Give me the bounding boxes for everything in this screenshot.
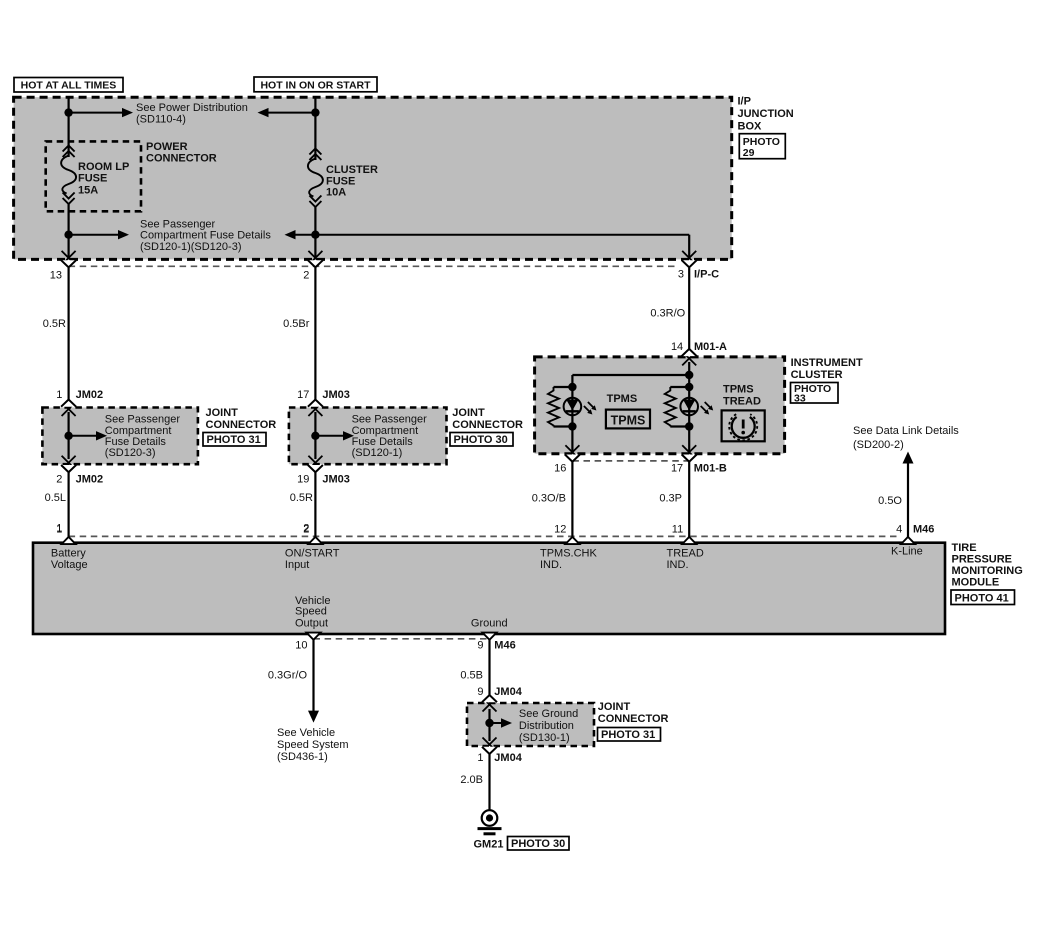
svg-text:CONNECTOR: CONNECTOR — [452, 419, 523, 431]
svg-text:INSTRUMENT: INSTRUMENT — [791, 357, 863, 369]
svg-text:K-Line: K-Line — [891, 546, 923, 558]
svg-text:GM21: GM21 — [474, 838, 504, 850]
svg-text:9: 9 — [477, 639, 483, 651]
svg-text:0.5B: 0.5B — [460, 669, 483, 681]
svg-text:TREAD: TREAD — [723, 395, 761, 407]
svg-text:1: 1 — [477, 752, 483, 764]
svg-text:FUSE: FUSE — [78, 173, 107, 185]
svg-text:See Passenger: See Passenger — [140, 218, 216, 230]
svg-text:HOT IN ON OR START: HOT IN ON OR START — [260, 79, 371, 91]
svg-text:Ground: Ground — [471, 617, 508, 629]
svg-text:CLUSTER: CLUSTER — [326, 164, 378, 176]
svg-text:19: 19 — [297, 473, 309, 485]
svg-text:I/P: I/P — [738, 96, 751, 108]
svg-text:0.5L: 0.5L — [45, 492, 66, 504]
svg-text:0.3P: 0.3P — [659, 493, 682, 505]
svg-text:PHOTO 41: PHOTO 41 — [955, 592, 1009, 604]
svg-text:HOT AT ALL TIMES: HOT AT ALL TIMES — [21, 80, 117, 92]
svg-text:TPMS.CHK: TPMS.CHK — [540, 548, 598, 560]
svg-text:TREAD: TREAD — [667, 548, 704, 560]
svg-text:1: 1 — [56, 523, 62, 535]
svg-text:CLUSTER: CLUSTER — [791, 369, 843, 381]
svg-text:29: 29 — [743, 147, 755, 159]
svg-text:See Vehicle: See Vehicle — [277, 727, 335, 739]
svg-text:M46: M46 — [494, 639, 515, 651]
svg-text:Output: Output — [295, 617, 328, 629]
svg-text:MONITORING: MONITORING — [952, 565, 1023, 577]
svg-text:Speed System: Speed System — [277, 739, 349, 751]
svg-text:M46: M46 — [913, 523, 934, 535]
svg-text:Compartment Fuse Details: Compartment Fuse Details — [140, 230, 271, 242]
svg-text:TPMS: TPMS — [723, 384, 754, 396]
svg-text:(SD120-3): (SD120-3) — [105, 447, 156, 459]
svg-text:0.5Br: 0.5Br — [283, 318, 310, 330]
svg-text:ROOM LP: ROOM LP — [78, 161, 129, 173]
svg-text:JM02: JM02 — [76, 389, 104, 401]
svg-text:11: 11 — [672, 523, 683, 535]
svg-text:See Passenger: See Passenger — [352, 413, 428, 425]
svg-text:12: 12 — [554, 523, 566, 535]
svg-text:3: 3 — [678, 269, 684, 281]
svg-text:0.5R: 0.5R — [290, 492, 313, 504]
svg-text:0.3O/B: 0.3O/B — [532, 493, 566, 505]
svg-text:2: 2 — [303, 269, 309, 281]
svg-text:4: 4 — [896, 523, 902, 535]
svg-text:I/P-C: I/P-C — [694, 269, 719, 281]
svg-text:1: 1 — [56, 389, 62, 401]
svg-text:2: 2 — [303, 523, 309, 535]
svg-text:ON/START: ON/START — [285, 548, 340, 560]
svg-text:PHOTO 31: PHOTO 31 — [601, 729, 655, 741]
svg-text:0.3Gr/O: 0.3Gr/O — [268, 669, 308, 681]
svg-text:17: 17 — [297, 389, 309, 401]
svg-text:POWER: POWER — [146, 141, 188, 153]
svg-text:JOINT: JOINT — [452, 407, 485, 419]
svg-text:M01-A: M01-A — [694, 341, 727, 353]
svg-text:TPMS: TPMS — [611, 413, 646, 427]
svg-text:Voltage: Voltage — [51, 559, 88, 571]
svg-text:JM03: JM03 — [322, 473, 350, 485]
svg-text:CONNECTOR: CONNECTOR — [206, 419, 277, 431]
svg-text:2.0B: 2.0B — [460, 774, 483, 786]
svg-text:(SD200-2): (SD200-2) — [853, 439, 904, 451]
svg-text:17: 17 — [671, 463, 683, 475]
svg-text:10A: 10A — [326, 187, 346, 199]
svg-text:0.3R/O: 0.3R/O — [650, 307, 685, 319]
svg-text:TIRE: TIRE — [952, 542, 977, 554]
svg-text:CONNECTOR: CONNECTOR — [146, 153, 217, 165]
svg-text:2: 2 — [56, 473, 62, 485]
svg-text:16: 16 — [554, 463, 566, 475]
svg-text:(SD436-1): (SD436-1) — [277, 751, 328, 763]
svg-text:0.5R: 0.5R — [43, 318, 66, 330]
svg-text:0.5O: 0.5O — [878, 495, 902, 507]
svg-text:See Passenger: See Passenger — [105, 413, 181, 425]
svg-text:See Power Distribution: See Power Distribution — [136, 102, 248, 114]
svg-text:PHOTO 30: PHOTO 30 — [511, 838, 565, 850]
svg-text:BOX: BOX — [738, 120, 763, 132]
svg-text:33: 33 — [794, 392, 806, 404]
svg-text:13: 13 — [50, 269, 62, 281]
svg-text:CONNECTOR: CONNECTOR — [598, 713, 669, 725]
svg-text:MODULE: MODULE — [952, 577, 1000, 589]
svg-text:10: 10 — [295, 639, 307, 651]
svg-text:IND.: IND. — [667, 559, 689, 571]
svg-text:IND.: IND. — [540, 559, 562, 571]
svg-text:Battery: Battery — [51, 548, 86, 560]
svg-text:Speed: Speed — [295, 606, 327, 618]
svg-text:JM03: JM03 — [322, 389, 350, 401]
svg-text:Input: Input — [285, 559, 309, 571]
svg-text:See Ground: See Ground — [519, 708, 578, 720]
svg-text:Distribution: Distribution — [519, 720, 574, 732]
svg-text:JM04: JM04 — [494, 686, 522, 698]
svg-text:See Data Link Details: See Data Link Details — [853, 425, 959, 437]
svg-text:14: 14 — [671, 341, 683, 353]
svg-text:(SD120-1): (SD120-1) — [352, 447, 403, 459]
svg-text:M01-B: M01-B — [694, 463, 727, 475]
svg-text:9: 9 — [477, 686, 483, 698]
svg-text:PHOTO 31: PHOTO 31 — [207, 434, 261, 446]
svg-text:JOINT: JOINT — [206, 407, 239, 419]
svg-text:JM04: JM04 — [494, 752, 522, 764]
svg-text:(SD110-4): (SD110-4) — [136, 114, 186, 126]
svg-text:JOINT: JOINT — [598, 701, 631, 713]
svg-text:PRESSURE: PRESSURE — [952, 554, 1013, 566]
svg-text:JM02: JM02 — [76, 473, 104, 485]
svg-text:15A: 15A — [78, 185, 98, 197]
svg-text:PHOTO 30: PHOTO 30 — [454, 434, 508, 446]
svg-text:TPMS: TPMS — [607, 393, 638, 405]
svg-text:JUNCTION: JUNCTION — [738, 108, 794, 120]
svg-text:(SD130-1): (SD130-1) — [519, 732, 570, 744]
svg-text:(SD120-1)(SD120-3): (SD120-1)(SD120-3) — [140, 241, 241, 253]
